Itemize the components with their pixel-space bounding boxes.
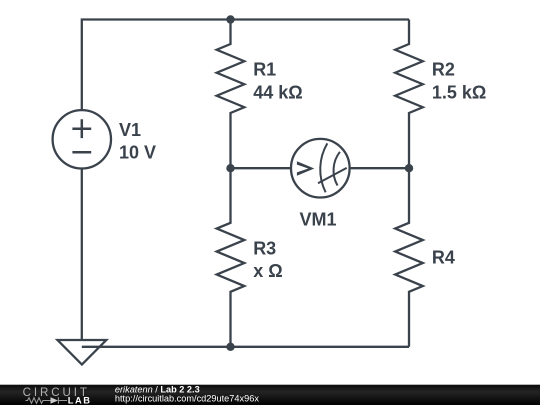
svg-text:x Ω: x Ω (253, 261, 282, 281)
svg-text:44 kΩ: 44 kΩ (253, 82, 302, 102)
resistor R4 (395, 168, 423, 347)
resistor R2 (395, 20, 423, 169)
wire bottom net (82, 346, 409, 348)
voltage source V1 (53, 110, 111, 168)
voltmeter VM1 (291, 139, 350, 198)
svg-text:10 V: 10 V (119, 143, 156, 163)
wire top net from V1 plus to R1/R2 tops (82, 20, 409, 111)
footer bar (0, 384, 540, 405)
node top (R1 top junction) (226, 15, 234, 23)
ground (58, 340, 107, 365)
svg-text:R1: R1 (253, 60, 276, 80)
wire middle left (node A to VM1) (231, 167, 292, 169)
resistor R1 (217, 20, 245, 169)
svg-text:R4: R4 (432, 248, 455, 268)
svg-text:R3: R3 (253, 238, 276, 258)
resistor R3 (217, 168, 245, 347)
svg-text:V1: V1 (119, 120, 141, 140)
svg-text:VM1: VM1 (300, 209, 337, 229)
svg-text:LAB: LAB (68, 395, 92, 405)
node middle left (226, 164, 234, 172)
svg-text:1.5 kΩ: 1.5 kΩ (432, 82, 486, 102)
svg-text:http://circuitlab.com/cd29ute7: http://circuitlab.com/cd29ute74x96x (115, 394, 259, 404)
svg-text:R2: R2 (432, 60, 455, 80)
node middle right (405, 164, 413, 172)
wire middle right (VM1 to node B) (350, 167, 409, 169)
logo resistor-diode glyph (26, 397, 68, 403)
wire V1 minus to ground (81, 169, 83, 341)
node bottom (R3 bottom junction) (226, 343, 234, 351)
